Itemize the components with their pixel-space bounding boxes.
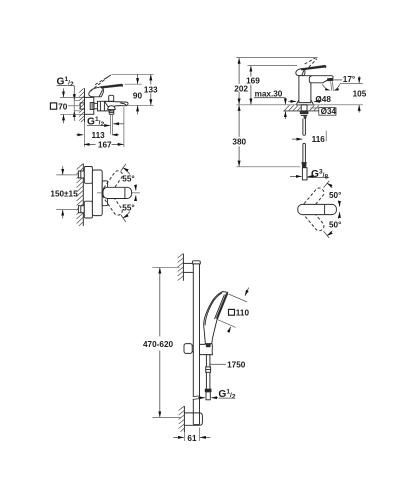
dimension 113 bbox=[76, 131, 119, 140]
top bracket bbox=[183, 263, 196, 272]
nipple G3/8 bbox=[302, 168, 307, 180]
supply hose lower bbox=[303, 143, 306, 162]
svg-text:55°: 55° bbox=[122, 175, 134, 184]
svg-text:133: 133 bbox=[144, 86, 158, 95]
svg-text:113: 113 bbox=[92, 131, 106, 140]
FIG3 wall mixer top view 55deg bbox=[50, 164, 139, 227]
top escutcheon bbox=[84, 167, 92, 184]
nipple G1/2 bbox=[206, 392, 210, 400]
hose cone fitting bbox=[302, 162, 307, 167]
svg-text:90: 90 bbox=[133, 91, 143, 100]
hose lower bbox=[206, 372, 210, 389]
label G1/2 bottom bbox=[87, 116, 124, 128]
spout bbox=[105, 101, 129, 106]
svg-text:470-620: 470-620 bbox=[143, 340, 173, 349]
extension line spout bottom bbox=[127, 104, 154, 106]
solid lever bbox=[298, 204, 337, 214]
shank and locknut bbox=[300, 105, 308, 119]
dimension 202 and 380 bbox=[232, 58, 248, 166]
stream lines bbox=[331, 81, 334, 91]
extension line raised lever top bbox=[236, 57, 317, 59]
radial line up bbox=[324, 181, 330, 188]
arc down 55 bbox=[123, 211, 130, 218]
svg-text:167: 167 bbox=[98, 140, 112, 149]
label 1750 with leader bbox=[210, 360, 246, 369]
supply pipe behind wall bbox=[74, 100, 80, 111]
bottom bracket bbox=[184, 413, 202, 425]
dimension dia48 bbox=[288, 95, 331, 104]
svg-text:105: 105 bbox=[353, 90, 367, 99]
base flare bbox=[297, 100, 314, 105]
bottom wall hatch bbox=[179, 406, 185, 432]
outlet stem lines bbox=[110, 114, 112, 134]
hose upper bbox=[206, 355, 210, 367]
svg-text:50°: 50° bbox=[329, 191, 341, 200]
svg-text:17°: 17° bbox=[343, 75, 355, 84]
dimension 116 bbox=[292, 131, 326, 145]
wall union square bbox=[80, 103, 84, 109]
label G1/2 bbox=[198, 389, 236, 401]
cartridge cap bbox=[109, 95, 114, 101]
dashed lever down 55 bbox=[101, 190, 124, 217]
inlet centerline bbox=[68, 105, 80, 107]
label G3/8 bbox=[290, 169, 329, 181]
lever handle bbox=[296, 65, 326, 75]
svg-text:1750: 1750 bbox=[227, 360, 246, 369]
mixer body bbox=[98, 101, 111, 111]
svg-text:116: 116 bbox=[312, 135, 326, 144]
supply hose upper bbox=[303, 119, 306, 136]
raised lever dashed bbox=[305, 58, 317, 67]
FIG4 basin handle top view 50deg bbox=[298, 181, 342, 238]
dimension 167 bbox=[84, 140, 124, 149]
arc up 50 bbox=[327, 183, 332, 188]
dashed lever down 50 bbox=[302, 206, 326, 232]
extension line lever top bbox=[248, 65, 298, 67]
aerator bbox=[327, 78, 333, 81]
svg-text:70: 70 bbox=[58, 102, 68, 111]
top wall hatch bbox=[178, 254, 184, 281]
angle arcs 17deg bbox=[322, 84, 340, 90]
svg-text:Ø48: Ø48 bbox=[315, 95, 331, 104]
solid lever bbox=[103, 187, 132, 198]
cartridge housing bbox=[102, 181, 107, 206]
extension line hose end bbox=[236, 166, 300, 168]
svg-text:110: 110 bbox=[236, 308, 250, 317]
extension line spout tip bbox=[123, 107, 125, 147]
bottom escutcheon bbox=[84, 201, 92, 218]
outlet dome bbox=[108, 106, 116, 110]
dimension square70 bbox=[50, 88, 84, 123]
dashed lever up 50 bbox=[302, 186, 326, 212]
holder bbox=[200, 344, 213, 355]
mounting deck with hatch bbox=[236, 105, 363, 111]
svg-text:Ø34: Ø34 bbox=[321, 107, 337, 116]
dimension 105 bbox=[340, 76, 367, 113]
arc up 55 bbox=[123, 168, 130, 175]
hand shower bbox=[204, 292, 228, 355]
label G1/2 top bbox=[57, 76, 75, 121]
dimension 90 bbox=[133, 74, 143, 114]
hose nut dark bbox=[206, 344, 211, 347]
centerline horizontal bbox=[97, 192, 140, 194]
FIG5 shower rail set bbox=[143, 254, 249, 444]
lever handle bbox=[89, 84, 123, 97]
hose end nut bbox=[205, 389, 211, 392]
svg-text:169: 169 bbox=[246, 77, 260, 86]
raised lever dashed bbox=[90, 75, 111, 92]
rail break bbox=[193, 396, 200, 400]
extension line wall face bbox=[84, 122, 86, 146]
FIG2 basin mixer side view bbox=[232, 58, 366, 181]
dimension 150+-15 bbox=[50, 166, 78, 218]
wall hatch bbox=[77, 164, 84, 227]
label max.30 bbox=[254, 89, 286, 119]
label dia34 boxed bbox=[311, 107, 337, 116]
union nut bbox=[90, 103, 94, 110]
radial line down bbox=[121, 215, 126, 222]
svg-text:150±15: 150±15 bbox=[50, 190, 78, 199]
dimension 61 bbox=[173, 428, 210, 444]
svg-text:61: 61 bbox=[187, 434, 197, 443]
rail lower section bbox=[193, 399, 199, 425]
outlet thread G1/2 bbox=[109, 110, 114, 115]
FIG1 bath mixer side view bbox=[50, 74, 158, 149]
top union bolt bbox=[78, 171, 84, 178]
label 17deg with leader bbox=[334, 75, 355, 84]
dashed lever up 55 bbox=[101, 169, 124, 196]
svg-text:55°: 55° bbox=[122, 204, 134, 213]
body and spout bbox=[299, 76, 333, 103]
spout lip inner line bbox=[120, 103, 126, 106]
arc down 50 bbox=[327, 231, 332, 236]
dimension 470-620 bbox=[143, 267, 181, 417]
slider knob bbox=[184, 344, 193, 354]
dimension square110 bbox=[217, 288, 249, 333]
escutcheon side bbox=[85, 97, 94, 114]
s-union pipe bbox=[94, 103, 98, 109]
dimension 133 bbox=[144, 75, 158, 105]
svg-text:380: 380 bbox=[232, 137, 246, 146]
hose coupling bbox=[206, 367, 211, 372]
radial line up bbox=[121, 164, 126, 171]
dimension 169 bbox=[246, 66, 260, 104]
svg-text:50°: 50° bbox=[329, 220, 341, 229]
bottom union bolt bbox=[78, 206, 84, 213]
svg-text:202: 202 bbox=[234, 84, 248, 93]
rail upper section bbox=[193, 264, 199, 396]
rail top cap bbox=[192, 261, 200, 264]
extension line raised lever top bbox=[111, 73, 153, 75]
wall hatch bbox=[79, 88, 84, 122]
extension line lever top bbox=[125, 83, 142, 85]
svg-text:max.30: max.30 bbox=[255, 89, 283, 98]
body plate bbox=[92, 170, 102, 216]
radial line down bbox=[324, 231, 330, 238]
